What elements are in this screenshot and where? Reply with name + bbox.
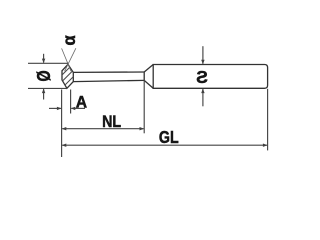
svg-text:GL: GL (159, 128, 179, 148)
svg-text:α: α (59, 35, 78, 46)
svg-text:NL: NL (102, 113, 121, 131)
svg-text:A: A (76, 93, 88, 111)
svg-text:Ø: Ø (34, 70, 54, 81)
svg-text:S: S (196, 67, 208, 87)
